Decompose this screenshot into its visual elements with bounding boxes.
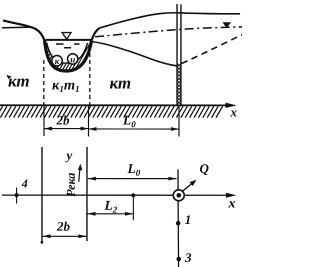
svg-text:кт: кт [8,71,30,90]
svg-text:3: 3 [184,250,192,265]
well symbol outer circle [173,190,184,201]
point 4 tick [16,187,18,203]
dot at left bank bottom [41,241,44,244]
water surface line in channel [46,39,92,41]
L0 dimension (bottom) [88,178,176,180]
dashed projection line right channel edge [89,53,91,105]
circled letter к (lining marker) [52,55,62,65]
dashed projection line left channel edge [43,60,45,105]
2b dimension line (bottom) [42,235,86,237]
svg-text:кт: кт [110,73,132,92]
channel bed outer curve [45,40,92,71]
svg-text:4: 4 [21,177,28,191]
svg-text:1: 1 [185,212,192,227]
river right bank line [86,147,88,241]
dimension tick right (well) [178,106,180,137]
svg-text:2b: 2b [56,112,71,127]
well casing right line [180,5,182,106]
dash-dot initial water table [95,27,242,37]
point 3 dot [176,257,181,262]
second (lower) surface line merging at left [2,26,33,29]
dimension tick middle [87,106,89,137]
well screen crosshatch [177,64,181,105]
right bank of channel [92,28,100,41]
dashed drawdown curve right of well [182,35,243,64]
tiny footnote arrow before кт [7,75,12,79]
solid drawdown curve left of well [92,41,177,65]
L2 dimension line [87,213,133,215]
svg-text:x: x [230,105,238,120]
dimension tick left (2b) [43,106,45,136]
L0 dimension line (top) [89,128,179,130]
L2 point tick [132,195,134,220]
point 4 dot [15,193,19,197]
well symbol center dot [176,193,181,198]
filled nabla on water table right [222,22,231,28]
water shading dashes [56,44,80,48]
channel lining inner curve [47,42,88,63]
svg-text:Река: Река [64,173,78,197]
x-axis (bottom) [2,194,232,196]
water level symbol (open nabla) [62,33,71,40]
svg-text:y: y [64,147,72,162]
svg-text:Q: Q [199,161,209,176]
x-axis arrowhead (top) [226,103,237,108]
circled letter и (lining marker) [68,54,78,64]
Q arrow [182,182,193,191]
well vertical line (bottom) [177,169,180,267]
svg-text:и: и [70,54,75,64]
ground line [0,104,229,106]
point 1 dot [176,221,181,226]
ground hatch [0,106,223,117]
well casing left line [176,4,178,105]
ground surface left + left bank of channel [3,20,45,40]
channel lining hatch [30,34,123,78]
river left bank line [41,147,43,242]
svg-text:2b: 2b [56,219,71,234]
L2 point dot on axis [131,193,135,197]
2b dimension line (top) [44,128,89,130]
ground surface right [100,13,241,28]
y axis arrow [79,167,80,181]
svg-text:x: x [227,197,235,212]
x-axis arrowhead (bottom) [226,193,237,198]
svg-text:к: к [55,56,60,66]
